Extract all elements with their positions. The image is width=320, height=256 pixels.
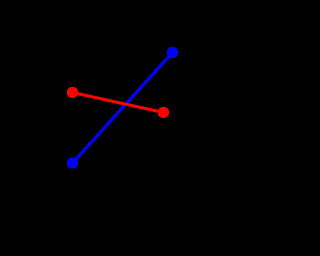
red segment: [73, 93, 164, 113]
red endpoint dot left: [67, 87, 78, 98]
blue segment: [73, 53, 173, 164]
red endpoint dot right: [158, 107, 169, 118]
blue endpoint dot lower-left: [67, 157, 78, 168]
blue endpoint dot upper-right: [167, 47, 178, 58]
